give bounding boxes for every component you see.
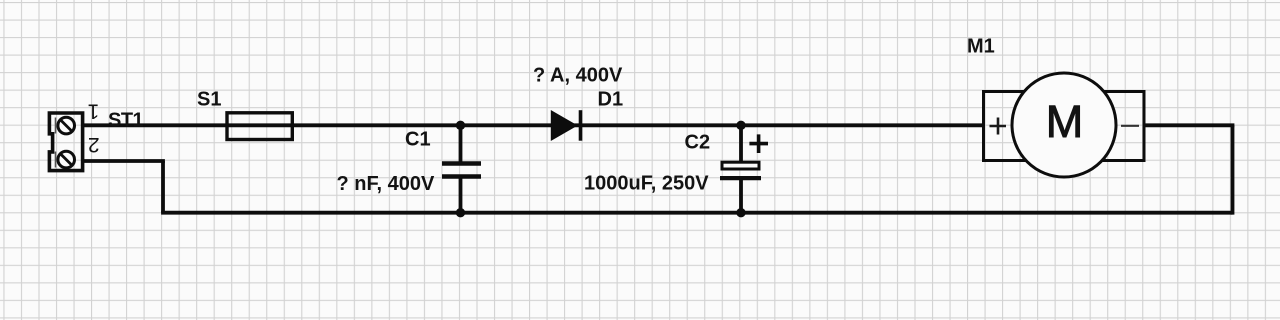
- svg-text:C1: C1: [405, 129, 431, 151]
- svg-text:D1: D1: [598, 89, 624, 111]
- svg-text:1000uF, 250V: 1000uF, 250V: [584, 173, 709, 195]
- capacitor C1 top plate: [442, 161, 481, 166]
- ST1 screw 1 clamp line: [55, 118, 57, 134]
- ST1 screw 1: [58, 117, 75, 134]
- junction node: C2 bottom: [736, 208, 745, 217]
- motor M1 minus terminal sign: [1121, 125, 1139, 127]
- terminal block ST1 body: [49, 113, 82, 171]
- wire: ST1 pin 2 horizontal stub: [83, 159, 165, 163]
- svg-text:M1: M1: [967, 36, 995, 58]
- capacitor C2 positive plate (hollow): [722, 162, 759, 169]
- wire: motor M1 right terminal to right corner: [1144, 123, 1234, 127]
- ST1 screw 2 slot: [61, 154, 71, 164]
- motor M1 circle: [1012, 73, 1116, 177]
- wire: bottom rail: [161, 211, 1232, 215]
- capacitor C2 negative plate: [720, 176, 761, 180]
- svg-text:2: 2: [88, 133, 100, 156]
- svg-text:S1: S1: [197, 88, 221, 110]
- svg-text:M: M: [1046, 96, 1084, 147]
- capacitor C1 bottom plate: [442, 174, 481, 179]
- svg-text:C2: C2: [685, 132, 711, 154]
- svg-text:? A, 400V: ? A, 400V: [533, 64, 623, 86]
- svg-text:1: 1: [88, 99, 100, 122]
- fuse S1: [227, 113, 292, 140]
- motor M1 body rectangle: [984, 92, 1145, 161]
- diode D1 cathode bar: [579, 110, 583, 141]
- motor M1 plus terminal sign: [990, 118, 1007, 135]
- junction node: C2 top: [736, 121, 745, 130]
- wire: ST1 pin 1 to motor M1 left terminal (top rail): [83, 123, 984, 127]
- junction node: C1 top: [456, 121, 465, 130]
- capacitor C1 lead top: [459, 125, 463, 163]
- C2 polarity plus sign: [749, 134, 768, 153]
- wire: left vertical segment from ST1 pin 2: [161, 161, 165, 213]
- wire: right vertical segment: [1231, 125, 1235, 214]
- capacitor C2 lead bottom: [739, 178, 743, 213]
- svg-text:ST1: ST1: [108, 110, 144, 132]
- ST1 screw 1 slot: [61, 120, 71, 130]
- svg-text:? nF, 400V: ? nF, 400V: [337, 173, 435, 195]
- capacitor C1 lead bottom: [459, 177, 463, 213]
- junction node: C1 bottom: [456, 208, 465, 217]
- capacitor C2 lead top: [739, 125, 743, 162]
- ST1 screw 2 clamp line: [55, 152, 57, 168]
- diode D1 anode triangle: [551, 111, 576, 140]
- ST1 screw 2: [58, 151, 75, 168]
